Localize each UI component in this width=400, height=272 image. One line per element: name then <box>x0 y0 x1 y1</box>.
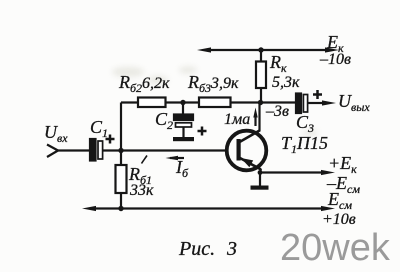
wire: emitter to bias terminal (+Ek/-Esm) <box>260 170 335 175</box>
wire: left vertical from bias line down to C1 node <box>120 103 122 151</box>
svg-text:Rб26,2к: Rб26,2к <box>118 72 170 95</box>
wire: base wire from C1 to transistor <box>103 149 228 151</box>
wire: Esm bottom rail <box>82 206 335 211</box>
node: Rb1 / bottom rail junction <box>118 206 123 211</box>
node: junction of Rk on Ek rail <box>258 47 263 52</box>
transistor base bar <box>237 139 241 161</box>
svg-text:20wek: 20wek <box>280 227 391 269</box>
svg-text:Т1П15: Т1П15 <box>281 133 328 156</box>
svg-text:C3: C3 <box>296 112 314 135</box>
capacitor C2 (electrolytic to ground) <box>174 103 193 138</box>
wire: emitter down to ground <box>259 173 261 186</box>
node: C1 / Rb1 / base junction <box>118 148 123 153</box>
svg-text:C1: C1 <box>90 117 108 140</box>
svg-text:Iб: Iб <box>175 157 189 180</box>
svg-text:Rб33,9к: Rб33,9к <box>187 72 239 95</box>
node: collector junction <box>258 100 263 105</box>
wire: bias/collector horizontal line <box>121 101 296 103</box>
current arrow Ib <box>166 156 185 161</box>
svg-text:5,3к: 5,3к <box>272 74 300 91</box>
polarity + of C2 <box>198 127 207 136</box>
svg-text:33к: 33к <box>129 182 154 199</box>
capacitor C3 (electrolytic, output) <box>296 94 308 114</box>
node: Rb2/Rb3 junction <box>180 100 185 105</box>
faint scan smudges <box>112 67 318 137</box>
emitter lead with PNP arrow <box>240 158 261 173</box>
ground bar under C2 <box>173 137 194 141</box>
wire: input to C1 <box>57 149 90 151</box>
transistor T1 circle <box>227 131 267 171</box>
svg-text:3: 3 <box>226 238 237 260</box>
svg-text:Uвых: Uвых <box>338 91 370 114</box>
wire: Ek top supply rail <box>197 47 339 52</box>
collector lead <box>240 103 260 142</box>
node: emitter junction <box>258 170 263 175</box>
svg-text:Uвх: Uвх <box>44 122 68 145</box>
wire: C3 to output arrow <box>308 100 337 105</box>
svg-text:Рис.: Рис. <box>178 238 215 260</box>
svg-text:1ма: 1ма <box>224 111 250 128</box>
ground bar under emitter <box>251 186 269 190</box>
polarity + of C1 <box>106 135 115 144</box>
svg-text:Rк: Rк <box>269 52 287 75</box>
current arrow 1ma (collector current) <box>253 108 257 127</box>
svg-text:–3в: –3в <box>265 103 289 120</box>
resistor Rk 5,3k <box>256 50 266 103</box>
svg-text:+10в: +10в <box>322 211 356 228</box>
capacitor C1 (electrolytic, series input) <box>90 139 103 161</box>
input terminal chevron Uvx <box>47 145 58 158</box>
resistor Rb3 3,9k <box>199 98 231 108</box>
polarity + of C3 <box>313 90 322 99</box>
resistor Rb2 6,2k <box>138 98 166 108</box>
svg-text:–10в: –10в <box>319 51 351 68</box>
svg-text:C2: C2 <box>155 109 173 132</box>
leader tick of Rb1 label <box>142 156 148 164</box>
resistor Rb1 33k <box>116 151 127 209</box>
